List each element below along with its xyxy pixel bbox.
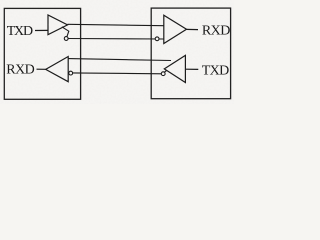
wire receiver U2 to RXD label xyxy=(187,28,199,30)
wire W4 (inverted line, bottom pair) xyxy=(71,72,164,75)
receiver U3 (left box, RXD) xyxy=(46,57,68,82)
wire RXD label to receiver U3 apex xyxy=(37,68,46,70)
wire TXD label to driver U4 xyxy=(185,68,198,70)
bubble on driver U4 output xyxy=(161,72,165,76)
svg-text:TXD: TXD xyxy=(7,24,33,39)
wire W1 (non-inverted line, top pair) xyxy=(68,24,164,25)
driver U1 (left box, TXD) xyxy=(48,15,68,35)
bubble on driver U1 output xyxy=(64,37,68,41)
right device box xyxy=(151,8,230,99)
svg-text:TXD: TXD xyxy=(202,64,229,79)
bubble on receiver U2 input xyxy=(155,37,159,41)
wire W2 (inverted line, top pair) xyxy=(66,38,164,41)
driver U4 inverted-output stub xyxy=(165,70,167,72)
receiver U2 (right box, RXD) xyxy=(164,15,187,43)
driver U4 (right box, TXD) xyxy=(164,55,185,82)
driver U1 inverted-output stub xyxy=(62,27,69,37)
left device box xyxy=(4,8,80,99)
svg-text:RXD: RXD xyxy=(202,23,230,38)
bubble on receiver U3 input xyxy=(69,71,73,75)
wire TXD label to driver U1 xyxy=(35,29,48,31)
svg-text:RXD: RXD xyxy=(6,63,34,78)
wire W3 (non-inverted line, bottom pair) xyxy=(68,59,171,61)
